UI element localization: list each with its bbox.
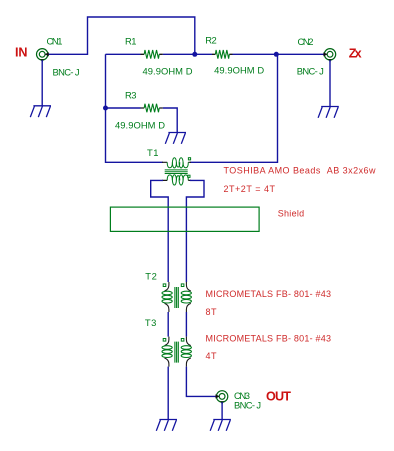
svg-text:BNC- J: BNC- J (234, 399, 261, 410)
wire CN2 to ground (329, 60, 331, 107)
svg-text:4T: 4T (206, 351, 218, 361)
wire junction2 to CN2 (276, 53, 324, 55)
svg-text:49.9OHM D: 49.9OHM D (214, 65, 264, 76)
ground (bottom left) (156, 420, 177, 431)
T2 left winding (162, 291, 172, 295)
wire right vertical (junction B down to T1 primary right) (190, 54, 278, 162)
svg-text:R3: R3 (125, 90, 137, 101)
svg-text:R2: R2 (205, 35, 217, 46)
wire CN1 to top bypass (48, 17, 195, 54)
wire R1 right lead (163, 53, 195, 55)
svg-text:CN2: CN2 (298, 36, 314, 47)
wire T2 to T3 right (185, 312, 187, 337)
T1 polarity square secondary (188, 175, 190, 177)
svg-text:49.9OHM D: 49.9OHM D (115, 120, 165, 131)
T1 polarity square primary (188, 158, 190, 160)
ground (R3) (165, 133, 186, 144)
svg-text:Zx: Zx (349, 47, 362, 61)
resistor R2 (212, 50, 233, 59)
svg-text:8T: 8T (206, 307, 218, 317)
svg-text:BNC- J: BNC- J (53, 67, 80, 78)
T3 core (175, 342, 178, 363)
T2 core (175, 287, 178, 308)
T3 polarity square left (163, 339, 166, 342)
T1 secondary pins (162, 179, 191, 181)
svg-text:49.9OHM D: 49.9OHM D (143, 66, 193, 77)
wire R3 left lead (106, 107, 141, 109)
svg-text:MICROMETALS FB- 801- #43: MICROMETALS FB- 801- #43 (206, 289, 332, 299)
svg-text:MICROMETALS FB- 801- #43: MICROMETALS FB- 801- #43 (206, 334, 332, 344)
T3 pin curves (165, 337, 169, 346)
junction node A (R1/R2/top wire) (192, 52, 197, 57)
T1 core (165, 170, 188, 174)
svg-text:R1: R1 (125, 36, 137, 47)
junction node C (R3 tee) (103, 106, 108, 111)
svg-text:BNC- J: BNC- J (297, 66, 324, 77)
T2 right winding (181, 291, 191, 295)
svg-text:CN1: CN1 (47, 36, 63, 47)
wire R3 right lead to ground drop (163, 108, 177, 133)
svg-text:T2: T2 (145, 271, 157, 282)
ground (CN1) (30, 106, 51, 117)
wire CN3 to ground (221, 402, 223, 420)
wire T2 to T3 left (167, 312, 169, 337)
svg-text:OUT: OUT (266, 390, 291, 404)
svg-text:Shield: Shield (278, 209, 305, 219)
wire T3 right down and over to CN3 (186, 367, 216, 397)
ground (CN3) (210, 420, 231, 431)
wire R2 left lead (195, 53, 212, 55)
T1 primary winding (167, 162, 172, 168)
svg-text:IN: IN (15, 46, 28, 60)
svg-text:T1: T1 (147, 147, 159, 158)
shield box (110, 207, 259, 231)
ground (CN2) (318, 107, 339, 118)
wire T3 left down to ground (167, 367, 169, 420)
T2 polarity square right (181, 284, 184, 287)
wire left vertical (R1 left / R3 / T1 primary left) (106, 54, 164, 162)
wire R2 right lead (233, 53, 277, 55)
wire CN1 to ground (41, 60, 43, 106)
transformer T2 (162, 282, 191, 312)
T1 secondary winding (167, 175, 172, 181)
svg-text:TOSHIBA AMO Beads AB 3x2x6w: TOSHIBA AMO Beads AB 3x2x6w (224, 166, 377, 176)
svg-text:2T+2T = 4T: 2T+2T = 4T (224, 184, 276, 194)
T2 polarity square left (163, 284, 166, 287)
T3 left winding (162, 346, 172, 350)
connector CN2 (323, 49, 335, 63)
resistor R3 (141, 104, 163, 113)
resistor R1 (141, 50, 163, 59)
wire T1 secondary left staircase down (151, 180, 169, 282)
T3 polarity square right (181, 339, 184, 342)
T1 primary pins (162, 161, 191, 163)
transformer T1 (162, 158, 191, 185)
wire T1 secondary right staircase down (186, 180, 204, 282)
T3 right winding (181, 346, 191, 350)
connector CN1 (37, 49, 49, 63)
T2 pin curves (165, 282, 169, 291)
svg-text:T3: T3 (145, 317, 157, 328)
junction node B (R2/CN2/down wire) (274, 52, 279, 57)
transformer T3 (162, 337, 191, 367)
wire R1 left lead (106, 53, 141, 55)
connector CN3 (216, 391, 228, 405)
